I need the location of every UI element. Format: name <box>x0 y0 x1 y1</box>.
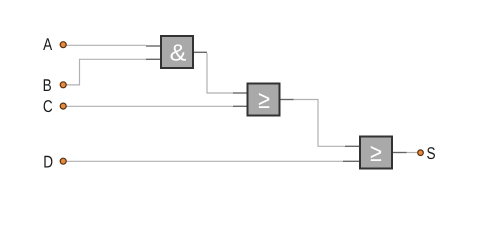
svg-text:D: D <box>43 153 53 172</box>
svg-text:S: S <box>426 144 435 163</box>
svg-text:≥: ≥ <box>258 86 270 114</box>
svg-text:≥: ≥ <box>370 139 382 167</box>
svg-text:&: & <box>170 40 187 66</box>
svg-text:C: C <box>43 97 53 116</box>
svg-text:A: A <box>43 35 53 54</box>
svg-text:B: B <box>43 76 52 95</box>
